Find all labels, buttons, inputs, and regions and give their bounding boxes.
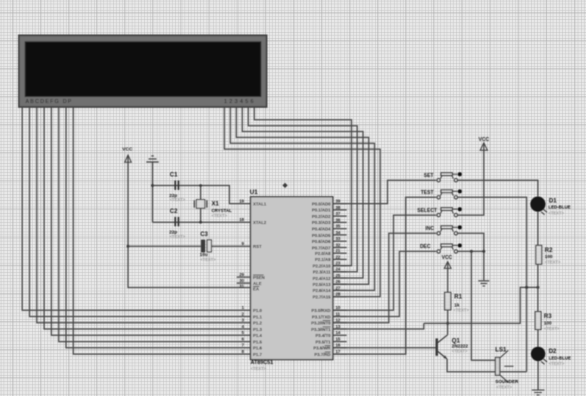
LED D2 xyxy=(531,347,571,366)
junction R2 bottom xyxy=(536,286,539,289)
junction crystal/XTAL1 row xyxy=(199,184,202,187)
pin 23 P2.2/A10 xyxy=(333,265,347,267)
pin 28 P2.7/A15 xyxy=(333,296,347,298)
svg-text:P2.7/A15: P2.7/A15 xyxy=(313,294,332,299)
svg-text:1k: 1k xyxy=(454,302,460,307)
pin 14 P3.4/T0 xyxy=(333,334,347,336)
wire SELECT to VCC xyxy=(458,144,484,216)
capacitor C2 xyxy=(169,209,185,239)
pin 30 ALE xyxy=(237,282,251,284)
svg-text:VCC: VCC xyxy=(479,137,490,143)
svg-text:RST: RST xyxy=(253,244,262,249)
svg-text:X1: X1 xyxy=(212,202,220,208)
svg-text:XTAL2: XTAL2 xyxy=(253,220,267,225)
pin 21 P2.0/A8 xyxy=(333,252,347,254)
pin 27 P2.6/A14 xyxy=(333,289,347,291)
power VCC symbol (R1) xyxy=(442,255,453,269)
svg-text:LED-BLUE: LED-BLUE xyxy=(549,355,571,360)
svg-text:32: 32 xyxy=(336,242,341,247)
svg-text:<TEXT>: <TEXT> xyxy=(453,308,469,313)
svg-text:34: 34 xyxy=(336,230,341,235)
junction ground/C1 xyxy=(151,184,154,187)
pin 36 P0.3/AD3 xyxy=(333,221,347,223)
wire LCD segment C to P1.2 pin 3 xyxy=(37,107,251,323)
junction crystal/XTAL2 row xyxy=(199,221,202,224)
wire DEC button to P3.1 xyxy=(333,251,436,316)
wire RST net xyxy=(128,245,251,247)
svg-text:P1.2: P1.2 xyxy=(253,321,262,326)
svg-text:27: 27 xyxy=(336,285,341,290)
wire XTAL2 net (C2 row to pin 18) xyxy=(153,221,251,223)
svg-text:LED-BLUE: LED-BLUE xyxy=(548,205,570,210)
svg-text:EA: EA xyxy=(253,287,259,292)
svg-text:VCC: VCC xyxy=(442,255,453,261)
svg-text:P0.1/AD1: P0.1/AD1 xyxy=(312,208,331,213)
wire DEC junction to sounder top xyxy=(471,251,495,360)
wire XTAL1 net (C1 row to pin 19) xyxy=(153,186,251,204)
wire R3 to D2 xyxy=(537,330,539,348)
svg-text:18: 18 xyxy=(239,217,244,222)
pin 22 P2.1/A9 xyxy=(333,258,347,260)
pin 29 PSEN xyxy=(237,276,251,278)
svg-text:<TEXT>: <TEXT> xyxy=(496,384,512,389)
svg-text:100: 100 xyxy=(544,320,552,325)
pin 38 P0.1/AD1 xyxy=(333,209,347,211)
svg-text:25: 25 xyxy=(336,273,341,278)
svg-text:37: 37 xyxy=(336,211,341,216)
svg-text:21: 21 xyxy=(336,248,341,253)
svg-text:<TEXT>: <TEXT> xyxy=(200,257,216,262)
svg-text:33: 33 xyxy=(336,236,341,241)
pin 16 P3.6/WR xyxy=(333,347,347,349)
wire LCD digit 4 to P2.5 pin 26 xyxy=(236,107,368,284)
pin 39 P0.0/AD0 xyxy=(333,203,347,205)
svg-text:C3: C3 xyxy=(200,232,208,238)
svg-text:INC: INC xyxy=(425,226,434,232)
wire SET to D1 anode xyxy=(458,180,538,196)
capacitor C3 xyxy=(200,232,217,262)
svg-text:100: 100 xyxy=(545,254,553,259)
pin 17 P3.7/RD xyxy=(333,353,347,355)
svg-text:P0.7/AD7: P0.7/AD7 xyxy=(312,245,331,250)
svg-text:TEST: TEST xyxy=(421,190,434,196)
svg-text:C1: C1 xyxy=(170,173,178,179)
svg-text:26: 26 xyxy=(336,279,341,284)
wire LCD segment DP to P1.7 pin 8 xyxy=(73,107,250,354)
svg-text:<TEXT>: <TEXT> xyxy=(544,326,560,331)
svg-text:17: 17 xyxy=(336,349,341,354)
svg-text:P3.5/T1: P3.5/T1 xyxy=(315,339,331,344)
svg-text:SELECT: SELECT xyxy=(417,208,437,214)
wire P0.0 to SET button xyxy=(333,180,436,203)
wire SELECT button to P3.0 xyxy=(333,215,436,310)
svg-text:P1.3: P1.3 xyxy=(253,327,262,332)
pin 11 P3.1/TXD xyxy=(333,316,347,318)
wire LCD segment G to P1.6 pin 7 xyxy=(66,107,251,348)
microcontroller U1 body xyxy=(250,189,333,371)
wire D1 to R2 xyxy=(537,212,539,246)
wire Q1 emitter to sounder bottom xyxy=(447,359,526,372)
svg-text:<TEXT>: <TEXT> xyxy=(545,260,561,265)
svg-text:P2.3/A11: P2.3/A11 xyxy=(313,270,331,275)
wire node H horizontal xyxy=(424,287,538,323)
svg-text:16: 16 xyxy=(336,343,341,348)
svg-text:ABCDEFG DP: ABCDEFG DP xyxy=(26,99,73,105)
svg-text:<TEXT>: <TEXT> xyxy=(452,348,468,353)
svg-text:P2.5/A13: P2.5/A13 xyxy=(313,282,332,287)
svg-text:DEC: DEC xyxy=(420,244,431,250)
svg-text:P3.0/RXD: P3.0/RXD xyxy=(311,308,330,313)
junction TEST riser xyxy=(525,286,528,289)
resistor R1 xyxy=(445,292,470,312)
origin marker diamond xyxy=(282,183,287,188)
svg-text:P2.2/A10: P2.2/A10 xyxy=(313,263,332,268)
svg-text:P1.5: P1.5 xyxy=(253,339,262,344)
junction VCC/RST xyxy=(127,245,130,248)
svg-text:P1.0: P1.0 xyxy=(253,308,262,313)
svg-text:P3.6/WR: P3.6/WR xyxy=(313,346,331,351)
wire Q1 collector to node H xyxy=(447,323,449,334)
svg-text:P1.1: P1.1 xyxy=(253,314,262,319)
svg-text:P0.6/AD6: P0.6/AD6 xyxy=(312,239,331,244)
LCD display screen xyxy=(25,42,261,97)
svg-text:R1: R1 xyxy=(454,294,462,300)
crystal X1 xyxy=(194,200,232,218)
power VCC symbol (left) xyxy=(122,147,133,163)
wire P3.3 to node H step xyxy=(333,323,424,329)
svg-text:123456: 123456 xyxy=(224,99,256,105)
svg-text:P1.7: P1.7 xyxy=(253,352,262,357)
svg-text:P3.1/TXD: P3.1/TXD xyxy=(312,314,331,319)
svg-text:P0.5/AD5: P0.5/AD5 xyxy=(312,233,331,238)
capacitor C1 xyxy=(169,173,185,203)
svg-text:12: 12 xyxy=(336,318,341,323)
svg-text:C2: C2 xyxy=(170,209,178,215)
svg-text:36: 36 xyxy=(336,217,341,222)
pin 33 P0.6/AD6 xyxy=(333,240,347,242)
ground symbol (bottom right) xyxy=(532,390,545,395)
wire LCD segment F to P1.5 pin 6 xyxy=(59,107,251,342)
LCD display module body xyxy=(19,35,267,107)
svg-text:R3: R3 xyxy=(544,314,552,320)
sounder LS1 xyxy=(495,348,519,390)
wire R1 to node H xyxy=(447,310,449,324)
svg-text:U1: U1 xyxy=(250,189,258,196)
svg-text:13: 13 xyxy=(336,324,341,329)
pin 13 P3.3/INT1 xyxy=(333,328,347,330)
svg-text:PSEN: PSEN xyxy=(253,275,265,280)
wire LCD digit 2 to P2.3 pin 24 xyxy=(248,107,357,272)
wire D2 to ground xyxy=(537,361,539,390)
wire DEC right to ground xyxy=(458,251,484,280)
svg-text:P3.7/RD: P3.7/RD xyxy=(314,352,330,357)
svg-text:D1: D1 xyxy=(549,198,557,204)
svg-text:SET: SET xyxy=(424,173,434,179)
resistor R3 xyxy=(535,312,560,331)
svg-text:39: 39 xyxy=(336,199,341,204)
pin 35 P0.4/AD4 xyxy=(333,228,347,230)
wire VCC to R1 xyxy=(447,262,449,292)
svg-text:D2: D2 xyxy=(549,349,557,355)
svg-text:P2.1/A9: P2.1/A9 xyxy=(315,257,331,262)
svg-text:P0.4/AD4: P0.4/AD4 xyxy=(312,227,331,232)
svg-text:P1.4: P1.4 xyxy=(253,333,262,338)
wire ground rail xyxy=(152,163,154,223)
wire LCD digit 3 to P2.4 pin 25 xyxy=(242,107,363,278)
svg-text:<TEXT>: <TEXT> xyxy=(170,234,186,239)
pin 32 P0.7/AD7 xyxy=(333,247,347,249)
LED D1 xyxy=(530,197,570,216)
wire VCC rail to RST junction and EA xyxy=(128,156,251,288)
wire LCD digit 1 to P2.2 pin 23 xyxy=(254,107,351,266)
wire LCD segment B to P1.1 pin 2 xyxy=(30,107,251,317)
junction DEC/sounder branch xyxy=(470,250,473,253)
wire R2 to R3 xyxy=(537,264,539,311)
transistor Q1 xyxy=(436,335,469,359)
pin 15 P3.5/T1 xyxy=(333,341,347,343)
svg-text:P2.6/A14: P2.6/A14 xyxy=(313,288,332,293)
resistor R2 xyxy=(536,245,561,264)
svg-text:P0.2/AD2: P0.2/AD2 xyxy=(312,214,331,219)
wire LCD segment D to P1.3 pin 4 xyxy=(44,107,250,329)
svg-text:11: 11 xyxy=(336,311,341,316)
svg-text:38: 38 xyxy=(336,205,341,210)
svg-text:P3.4/T0: P3.4/T0 xyxy=(315,333,331,338)
pin 26 P2.5/A13 xyxy=(333,283,347,285)
svg-text:23: 23 xyxy=(336,261,341,266)
svg-text:P3.3/INT1: P3.3/INT1 xyxy=(311,327,331,332)
ground symbol (left) xyxy=(146,156,158,162)
svg-text:19: 19 xyxy=(239,199,244,204)
pin 12 P3.2/INT0 xyxy=(333,322,347,324)
junction DEC/ground rail xyxy=(482,250,485,253)
wire INC button to P3.2 xyxy=(333,233,436,322)
svg-text:35: 35 xyxy=(336,224,341,229)
svg-text:P2.4/A12: P2.4/A12 xyxy=(313,276,332,281)
wire P3.6 to Q1 base xyxy=(333,347,436,349)
pin 37 P0.2/AD2 xyxy=(333,215,347,217)
svg-text:28: 28 xyxy=(336,292,341,297)
svg-text:22: 22 xyxy=(336,254,341,259)
svg-text:P1.6: P1.6 xyxy=(253,346,262,351)
svg-text:<TEXT>: <TEXT> xyxy=(251,366,267,371)
svg-text:10: 10 xyxy=(336,305,341,310)
svg-text:30: 30 xyxy=(239,278,244,283)
wire crystal rail xyxy=(200,186,202,223)
svg-text:31: 31 xyxy=(239,284,244,289)
svg-text:<TEXT>: <TEXT> xyxy=(548,210,564,215)
wire LCD segment A to P1.0 pin 1 xyxy=(22,107,250,310)
svg-text:<TEXT>: <TEXT> xyxy=(212,213,228,218)
pin 10 P3.0/RXD xyxy=(333,309,347,311)
wire TEST button to P3.7 xyxy=(333,197,436,354)
wire LCD digit 6 to P2.7 pin 28 xyxy=(224,107,380,297)
svg-text:P0.0/AD0: P0.0/AD0 xyxy=(312,201,331,206)
junction node H xyxy=(446,322,449,325)
ground symbol (buttons) xyxy=(478,281,489,286)
wire LCD digit 5 to P2.6 pin 27 xyxy=(230,107,374,290)
svg-text:14: 14 xyxy=(336,330,341,335)
svg-text:XTAL1: XTAL1 xyxy=(253,201,267,206)
svg-text:P0.3/AD3: P0.3/AD3 xyxy=(312,220,331,225)
pin 34 P0.5/AD5 xyxy=(333,234,347,236)
svg-text:VCC: VCC xyxy=(122,147,133,153)
svg-text:P2.0/A8: P2.0/A8 xyxy=(315,251,331,256)
wire TEST right riser xyxy=(458,197,527,371)
wire INC right to DEC row xyxy=(458,233,484,251)
wire LCD segment E to P1.4 pin 5 xyxy=(51,107,250,335)
svg-text:ALE: ALE xyxy=(253,281,262,286)
pin 25 P2.4/A12 xyxy=(333,277,347,279)
svg-text:P3.2/INT0: P3.2/INT0 xyxy=(311,321,331,326)
svg-text:<TEXT>: <TEXT> xyxy=(170,197,186,202)
power VCC symbol (buttons) xyxy=(479,137,490,150)
svg-text:15: 15 xyxy=(336,336,341,341)
svg-text:29: 29 xyxy=(239,272,244,277)
svg-text:24: 24 xyxy=(336,267,341,272)
svg-text:<TEXT>: <TEXT> xyxy=(549,361,565,366)
svg-text:AT89C51: AT89C51 xyxy=(251,360,274,366)
pin 24 P2.3/A11 xyxy=(333,271,347,273)
